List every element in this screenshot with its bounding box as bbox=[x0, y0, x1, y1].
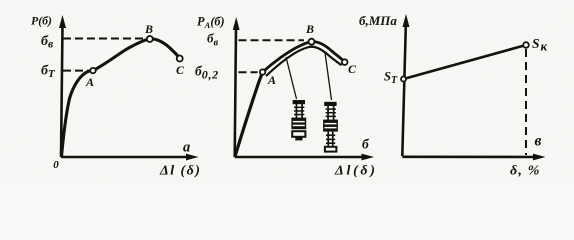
svg-text:Δl(δ): Δl(δ) bbox=[334, 164, 378, 179]
axis Y left bbox=[61, 26, 63, 157]
arrowhead X right bbox=[533, 154, 546, 161]
point C left bbox=[177, 56, 183, 62]
pointer line 2 middle bbox=[325, 53, 332, 101]
dashed line sigma_v middle bbox=[239, 39, 305, 41]
axis X right bbox=[402, 156, 537, 159]
point B left bbox=[147, 36, 153, 42]
svg-text:б,МПа: б,МПа bbox=[359, 13, 397, 28]
svg-text:B: B bbox=[305, 22, 314, 36]
svg-text:C: C bbox=[176, 63, 185, 77]
svg-text:0: 0 bbox=[53, 159, 59, 171]
svg-text:PA(б): PA(б) bbox=[197, 14, 225, 30]
svg-text:P(б): P(б) bbox=[31, 14, 52, 28]
arrowhead X left bbox=[186, 154, 199, 161]
dashed line sigma_02 middle bbox=[239, 71, 258, 73]
specimen 2 bbox=[323, 102, 338, 152]
specimen 1 bbox=[291, 100, 306, 140]
axis X middle bbox=[235, 156, 365, 159]
curve middle rising part bbox=[235, 72, 263, 156]
pointer line 1 middle bbox=[286, 57, 297, 99]
arrowhead Y right bbox=[403, 14, 410, 27]
point C middle bbox=[342, 59, 348, 65]
point A left bbox=[90, 68, 95, 73]
point A middle bbox=[260, 69, 265, 74]
background paper bbox=[0, 0, 574, 184]
dashed vertical from Sk bbox=[525, 49, 527, 155]
arrowhead Y left bbox=[59, 15, 66, 28]
axis X left bbox=[61, 156, 189, 159]
svg-text:Sк: Sк bbox=[532, 36, 548, 54]
svg-text:Δl (δ): Δl (δ) bbox=[159, 163, 201, 178]
svg-text:а: а bbox=[183, 139, 190, 155]
axis Y right bbox=[402, 26, 406, 156]
curve left bbox=[62, 39, 180, 157]
point St bbox=[401, 77, 406, 82]
curve middle outer bbox=[263, 42, 345, 72]
arrowhead Y middle bbox=[233, 17, 240, 30]
dashed line sigma_t left bbox=[63, 70, 89, 72]
svg-text:A: A bbox=[85, 75, 94, 89]
svg-text:C: C bbox=[348, 62, 357, 76]
svg-text:A: A bbox=[267, 73, 276, 87]
line St-Sk bbox=[404, 45, 527, 79]
point Sk bbox=[523, 42, 529, 48]
axis Y middle bbox=[235, 28, 236, 157]
svg-text:δ, %: δ, % bbox=[510, 164, 541, 179]
arrowhead X middle bbox=[362, 154, 375, 161]
point B middle bbox=[309, 39, 315, 45]
svg-text:B: B bbox=[144, 22, 153, 36]
curve middle inner bbox=[266, 47, 342, 76]
svg-text:в: в bbox=[535, 133, 542, 150]
dashed line sigma_v left bbox=[63, 38, 146, 40]
